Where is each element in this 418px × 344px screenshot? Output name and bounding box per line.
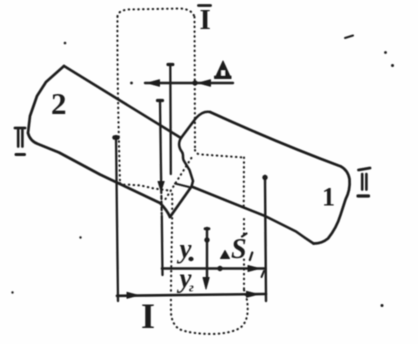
- down arrow on axis x=161: [158, 182, 164, 192]
- right extension line x=265: [265, 176, 266, 301]
- dotted outline: initial tooth position (top rounded rectangle): [118, 9, 195, 18]
- node dot on center axis: [204, 237, 209, 242]
- center axis x=207: [206, 228, 208, 280]
- tooth 1 tip rise to peak: [181, 112, 210, 138]
- node dot top of right extension: [262, 175, 267, 180]
- speck right 1: [384, 51, 387, 54]
- svg-text:1: 1: [322, 183, 335, 212]
- tooth 1 right end cap: [314, 167, 350, 244]
- dotted diagonal tooth gap line: [166, 157, 193, 199]
- small triangle before S: [221, 251, 230, 259]
- section mark II right: stems: [362, 174, 366, 190]
- small tick below dimension line 1 right end: [262, 271, 265, 277]
- serif cap of left extension: [115, 135, 118, 140]
- dimension line y_a / S: [162, 267, 266, 270]
- speck bottom right: [381, 304, 384, 307]
- speck top left: [64, 42, 67, 45]
- node dot on dotted line at Delta dimension: [192, 80, 197, 85]
- speck near dimension line: [130, 82, 133, 85]
- Delta symbol: [215, 61, 231, 79]
- section mark II right: overbar: [359, 168, 371, 170]
- Delta left arrowhead: [148, 80, 160, 87]
- section mark II left: overbar: [15, 127, 25, 130]
- svg-text:у: у: [177, 234, 193, 264]
- dotted left edge: [117, 17, 120, 184]
- node dot on dimension line 1: [217, 266, 222, 271]
- axis line of tooth 2 (x=161): [160, 100, 161, 193]
- section mark II left: underdash: [16, 153, 25, 156]
- left arrowhead of bottom dimension: [127, 292, 139, 298]
- dimension line y_r (bottom): [117, 294, 266, 296]
- section mark II left: stems: [18, 130, 22, 147]
- tooth 2 left end cap: [28, 66, 64, 133]
- serif cap of center axis: [205, 227, 209, 230]
- svg-text:I: I: [200, 4, 211, 36]
- tooth 1 bottom edge: [192, 187, 314, 244]
- dotted right vertical of displaced tooth: [243, 158, 245, 291]
- tooth 1 top edge: [210, 112, 341, 167]
- dotted bend toward second position: [195, 150, 244, 158]
- svg-text:I: I: [141, 296, 155, 336]
- speck left mid: [79, 236, 81, 238]
- dotted right edge: [193, 17, 196, 150]
- serif cap of axis x=161: [158, 99, 163, 102]
- down arrow at bottom of center axis: [203, 278, 209, 290]
- speck right 2: [391, 64, 394, 67]
- tooth 2 lower edge: [28, 133, 170, 217]
- svg-text:2: 2: [51, 86, 67, 121]
- subscript stroke of S: [250, 253, 253, 261]
- short root edge near junction: [175, 184, 189, 188]
- tooth 1 left flank (wavy): [179, 138, 193, 187]
- axis line x=170: [169, 64, 172, 174]
- tooth 2 top edge: [64, 66, 181, 138]
- svg-text:г: г: [189, 280, 194, 295]
- dotted left bottom bend to root line: [120, 183, 169, 191]
- right arrowhead of bottom dimension: [247, 291, 259, 297]
- serif cap of axis x=170: [168, 63, 173, 66]
- tooth 2 end flank rising to junction: [170, 187, 192, 218]
- speck bottom left: [11, 291, 13, 293]
- accent tick over S: [242, 234, 247, 237]
- section mark II right: underbar: [358, 194, 369, 197]
- right arrowhead of dimension line 1: [248, 266, 260, 272]
- dotted bottom tooth outline: [171, 190, 248, 334]
- subscript dot of y_a: [188, 257, 193, 261]
- Delta right arrowhead: [199, 80, 211, 87]
- speck dash top right: [345, 36, 353, 39]
- extension line left (x=117): [116, 136, 118, 301]
- overline of top section label I: [199, 4, 211, 7]
- dimension line Delta: [145, 82, 233, 84]
- svg-text:S: S: [231, 234, 247, 265]
